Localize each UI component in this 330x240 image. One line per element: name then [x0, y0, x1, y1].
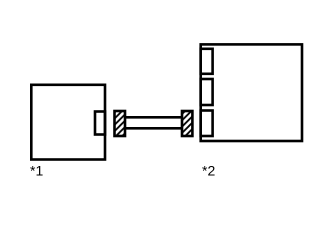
- left cable connector (hatched): [115, 111, 126, 136]
- connector 1 on component *2: [201, 49, 213, 74]
- connector 3 on component *2: [201, 111, 213, 137]
- svg-text:*1: *1: [30, 163, 43, 179]
- svg-text:*2: *2: [202, 163, 215, 179]
- right cable connector (hatched): [182, 111, 192, 136]
- wire top: [125, 116, 182, 119]
- component *2 box: [201, 44, 302, 141]
- component *1 box: [31, 85, 105, 160]
- connector 2 on component *2: [201, 79, 213, 105]
- connector on component *1: [95, 112, 105, 135]
- wire bottom: [125, 127, 182, 130]
